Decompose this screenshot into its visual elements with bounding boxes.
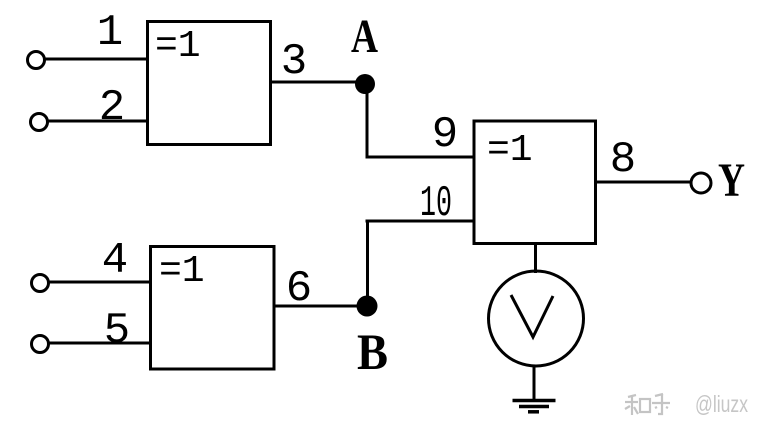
- svg-text:A: A: [351, 10, 378, 63]
- wire pin3: [271, 81, 366, 84]
- wire pin8: [595, 181, 691, 184]
- svg-text:5: 5: [104, 306, 130, 356]
- svg-text:=1: =1: [487, 129, 533, 172]
- wire voltmeter to ground: [533, 365, 536, 400]
- watermark zhihu logo strokes: [625, 394, 670, 415]
- wire pin2: [48, 120, 147, 123]
- wire pin9: [366, 156, 475, 159]
- XOR gate U3: [474, 121, 596, 244]
- svg-text:1: 1: [97, 8, 123, 58]
- svg-text:B: B: [357, 325, 388, 381]
- input terminal 2: [31, 114, 48, 131]
- svg-text:9: 9: [432, 110, 458, 160]
- svg-text:2: 2: [99, 83, 125, 133]
- ground: [513, 401, 556, 412]
- input terminal 5: [32, 336, 49, 353]
- wire pin5: [49, 342, 150, 345]
- wire node A down: [366, 84, 369, 159]
- wire pin1: [45, 58, 147, 61]
- wire node B up: [366, 220, 369, 307]
- XOR gate U1: [148, 22, 271, 145]
- svg-text:Y: Y: [718, 154, 745, 207]
- XOR gate U2: [151, 247, 275, 370]
- output terminal Y: [691, 173, 711, 193]
- svg-text:=1: =1: [155, 25, 201, 68]
- node A junction dot: [355, 74, 375, 94]
- node B junction dot: [357, 296, 378, 317]
- wire pin10: [366, 220, 475, 223]
- svg-text:10: 10: [420, 179, 452, 229]
- svg-text:6: 6: [286, 264, 312, 314]
- svg-text:4: 4: [102, 236, 128, 286]
- wire gate U3 to voltmeter: [534, 243, 537, 273]
- input terminal 4: [32, 275, 49, 292]
- svg-text:8: 8: [610, 135, 636, 185]
- wire pin6: [274, 305, 367, 308]
- svg-text:=1: =1: [159, 250, 205, 293]
- svg-text:@liuzx: @liuzx: [695, 391, 748, 417]
- wire pin4: [49, 281, 150, 284]
- svg-text:3: 3: [281, 37, 307, 87]
- input terminal 1: [28, 52, 45, 69]
- voltmeter V1: [489, 271, 584, 366]
